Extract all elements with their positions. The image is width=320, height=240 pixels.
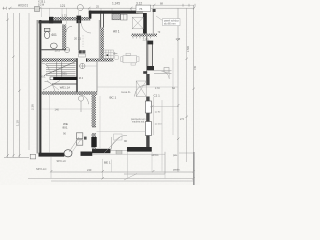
bathroom 601 toilet bowl	[44, 31, 49, 38]
entry door arc corridor	[82, 24, 92, 34]
section marker block top-left	[35, 7, 40, 12]
svg-text:M 4: M 4	[79, 76, 84, 80]
staircase hatched wall	[42, 58, 77, 62]
svg-text:madeira nat.: madeira nat.	[132, 120, 145, 123]
right wall inner face line	[145, 36, 147, 74]
entrance vertical line	[111, 137, 113, 149]
terrace outline	[92, 153, 165, 155]
window label box above wall	[136, 5, 151, 11]
stair break diagonal	[44, 62, 76, 76]
corner door box bottom-left	[30, 154, 35, 159]
bathroom 601 bottom wall	[42, 49, 67, 51]
shower drain dot	[107, 54, 109, 56]
svg-text:240: 240	[87, 168, 92, 172]
dining table dashed	[121, 53, 139, 65]
bottom-center wall	[92, 149, 110, 153]
svg-text:E01: E01	[62, 71, 68, 75]
svg-text:1.245: 1.245	[143, 39, 150, 42]
svg-text:2.5: 2.5	[180, 117, 184, 121]
svg-text:735: 735	[194, 65, 197, 70]
interior dim line room BE	[97, 131, 147, 133]
extension from door gap	[127, 152, 129, 179]
left outer wall outer line	[36, 20, 39, 154]
sill small rect	[164, 68, 169, 73]
dark jamb left of shower bar	[86, 58, 88, 61]
central vertical hatched wall upper run	[92, 95, 96, 127]
landing axis bubble	[64, 47, 69, 52]
bottom dimension line 2	[28, 178, 194, 180]
interior dim line WE801	[42, 108, 92, 110]
central horizontal hatched wall	[42, 91, 97, 94]
left dimension line 1	[7, 13, 9, 158]
shower tile grid	[103, 50, 113, 58]
bottom door gap lines	[110, 150, 127, 152]
shower room checkered bottom wall	[87, 58, 113, 61]
door swing diagonal 2 below landing	[47, 81, 59, 91]
bottom-left wall	[39, 153, 65, 157]
svg-text:2.565: 2.565	[187, 45, 190, 52]
door window rect 2 on right wall	[145, 122, 151, 136]
stair lower thin bar	[52, 83, 77, 85]
svg-text:(al 90: (al 90	[155, 112, 161, 114]
bathroom lower door diagonal 2	[72, 140, 81, 152]
bottom-right wall	[127, 147, 152, 152]
door arc at horizontal hatched wall	[45, 81, 55, 91]
rug outline room BE	[114, 134, 123, 140]
corridor wall left of step	[78, 20, 79, 50]
top-right thin outer line	[152, 12, 154, 34]
extra chair left of table	[115, 56, 118, 59]
top-right small tick block	[153, 9, 156, 12]
left dimension line 4	[28, 13, 30, 150]
svg-text:90.1: 90.1	[41, 76, 46, 79]
svg-text:76: 76	[139, 7, 143, 11]
stair stringer lines	[56, 62, 58, 76]
stair treads	[46, 63, 76, 75]
stair landing dark bar	[50, 77, 78, 80]
svg-text:170: 170	[155, 86, 160, 90]
top dimension text marks	[18, 1, 163, 8]
right extension line b	[161, 100, 163, 171]
right hatched spandrel bar	[132, 34, 158, 37]
entrance diagonal arrow	[104, 137, 120, 153]
axis line from bubble	[85, 65, 97, 67]
svg-text:BE 1: BE 1	[104, 161, 111, 165]
void X-box bottom right	[136, 81, 146, 97]
top extension lines	[42, 5, 154, 24]
entrance extension lower	[111, 160, 113, 173]
door swing diagonal 1 below landing	[43, 81, 60, 91]
svg-text:170: 170	[176, 37, 181, 41]
bathroom 601 toilet tank	[44, 28, 50, 31]
right extension line a	[172, 58, 174, 135]
right edge gray streak	[193, 152, 195, 185]
left tick marks	[6, 19, 20, 157]
svg-text:2.38: 2.38	[31, 104, 35, 110]
left dimension line 2	[12, 13, 14, 158]
top wall window segment	[136, 11, 143, 14]
svg-text:SP.X-LC: SP.X-LC	[36, 167, 47, 171]
svg-text:A03.01: A03.01	[18, 4, 28, 8]
left outer wall fill	[38, 20, 40, 154]
svg-text:pav.: pav.	[173, 154, 178, 157]
entrance door swing arc	[111, 135, 127, 151]
left outer wall inner dark line	[39, 20, 41, 154]
door symbol circle WE801	[78, 96, 83, 101]
corridor dashed line	[82, 35, 84, 47]
top dimension line right	[148, 4, 194, 6]
door arc right wall	[135, 85, 147, 97]
svg-text:C1 1: C1 1	[154, 94, 161, 98]
top right cross ticks	[183, 4, 195, 7]
left dim bottom terminator	[4, 157, 29, 159]
right room tick line y106	[150, 106, 179, 108]
svg-text:1.10: 1.10	[15, 120, 19, 126]
corner tick right	[143, 71, 147, 74]
dark pier on central wall	[91, 137, 96, 147]
small wall-side dim marks	[155, 112, 162, 126]
kitchen hatched counter	[112, 14, 120, 20]
svg-text:140: 140	[55, 107, 60, 111]
corridor thin partition below shower	[96, 62, 98, 92]
svg-text:SP.K-LC: SP.K-LC	[57, 160, 67, 163]
right extension line c	[153, 97, 155, 135]
corridor wall vertical double line	[99, 14, 102, 28]
closet dark blocks	[79, 50, 82, 53]
bathroom lower small dark mark	[84, 137, 87, 140]
bathroom 601 checkered right wall	[62, 25, 66, 50]
right wall lower main segment	[146, 97, 149, 148]
bottom extension line 2	[102, 159, 104, 178]
top-left wall pier 1	[49, 17, 53, 24]
top-left tiny text block	[38, 1, 46, 7]
diamond table top-right	[132, 17, 143, 29]
top-right corner wall vertical	[143, 13, 147, 34]
top wall main	[89, 11, 139, 14]
top small cross ticks left	[3, 7, 7, 10]
extension line x100 through room	[99, 96, 101, 148]
bathroom 601 door arc	[66, 26, 72, 32]
top-left wall solid band	[39, 20, 63, 23]
svg-text:WE1.1A: WE1.1A	[60, 86, 70, 90]
top-left wall pier 2 with axis bubble	[77, 16, 82, 24]
bottom dimension line 1	[51, 171, 194, 173]
axis bubble top	[77, 5, 83, 11]
right lower tick	[178, 152, 180, 154]
terrace extension lower	[164, 174, 166, 179]
oval planter at bottom wall	[64, 150, 72, 157]
corridor right wall thin line	[98, 20, 100, 59]
right dimension line 2	[186, 8, 188, 162]
shower faucet cross marks	[113, 53, 117, 55]
balcony door swing arc	[162, 71, 170, 78]
comb ticks under spandrel	[133, 36, 151, 38]
right dimension line 3	[193, 5, 195, 178]
svg-text:(al 210: (al 210	[155, 124, 162, 126]
svg-text:alu 80 mm: alu 80 mm	[164, 22, 176, 25]
bathroom 601 sink	[50, 43, 57, 49]
svg-text:121: 121	[60, 4, 66, 8]
top-left hatched wall	[49, 17, 91, 21]
staircase right wall	[76, 58, 78, 92]
right leader label box	[156, 16, 164, 22]
top dimension line	[8, 7, 194, 9]
bottom extension line from wall	[50, 157, 52, 178]
kitchen sink unit	[121, 14, 127, 20]
right wall upper end block top	[147, 41, 153, 45]
svg-text:pavim.: pavim.	[173, 169, 181, 172]
svg-text:601: 601	[52, 33, 58, 37]
svg-text:mesa 4L: mesa 4L	[121, 91, 131, 94]
door gap jamb lines	[92, 126, 96, 128]
step wall vertical x89	[89, 11, 92, 19]
bottom ticks	[50, 170, 195, 179]
corridor wall checkered lower part	[100, 28, 104, 60]
bathroom lower door diagonal 1	[69, 137, 79, 152]
door window rect 1 on right wall	[145, 101, 151, 113]
scan noise overlay	[0, 0, 200, 185]
door leaf line WE801	[80, 101, 82, 112]
bottom-left wall segment right of oval	[81, 152, 93, 156]
left dimension line 3	[18, 13, 20, 158]
right dimension ticks and numbers	[177, 39, 195, 140]
right wall upper outline band	[148, 42, 153, 67]
landing white square	[50, 77, 53, 79]
interior dim line across right room	[97, 86, 178, 88]
right dimension line 1	[177, 8, 179, 172]
svg-text:BC 1: BC 1	[110, 96, 117, 100]
svg-text:A0 1: A0 1	[113, 30, 120, 34]
sill lines right	[154, 70, 172, 72]
bathroom lower fixtures wc	[76, 133, 82, 139]
svg-text:62: 62	[172, 86, 176, 90]
svg-text:90: 90	[124, 139, 128, 143]
svg-text:1.245: 1.245	[112, 2, 120, 6]
top tick marks	[9, 4, 195, 10]
right lower horizontal dim line	[179, 152, 193, 154]
door arc into room WE801	[79, 95, 89, 105]
svg-text:WE801: WE801	[63, 122, 68, 130]
svg-text:20 21: 20 21	[74, 36, 81, 40]
svg-text:1/2 bl: 1/2 bl	[38, 3, 45, 6]
axis bubble corridor	[80, 63, 85, 68]
two-line pavimento text	[131, 118, 146, 124]
right wall lower upper segment	[146, 74, 149, 85]
central vertical hatched wall lower run	[92, 134, 96, 150]
bottom leader diagonal	[124, 174, 137, 181]
bathroom lower fixtures sink	[76, 140, 82, 145]
right wall upper end block bottom	[147, 66, 154, 70]
svg-text:10.5: 10.5	[55, 49, 61, 53]
left wall door arcs landing	[42, 63, 50, 71]
interior extension line from WE801	[49, 95, 51, 153]
corner extension line	[151, 152, 153, 172]
